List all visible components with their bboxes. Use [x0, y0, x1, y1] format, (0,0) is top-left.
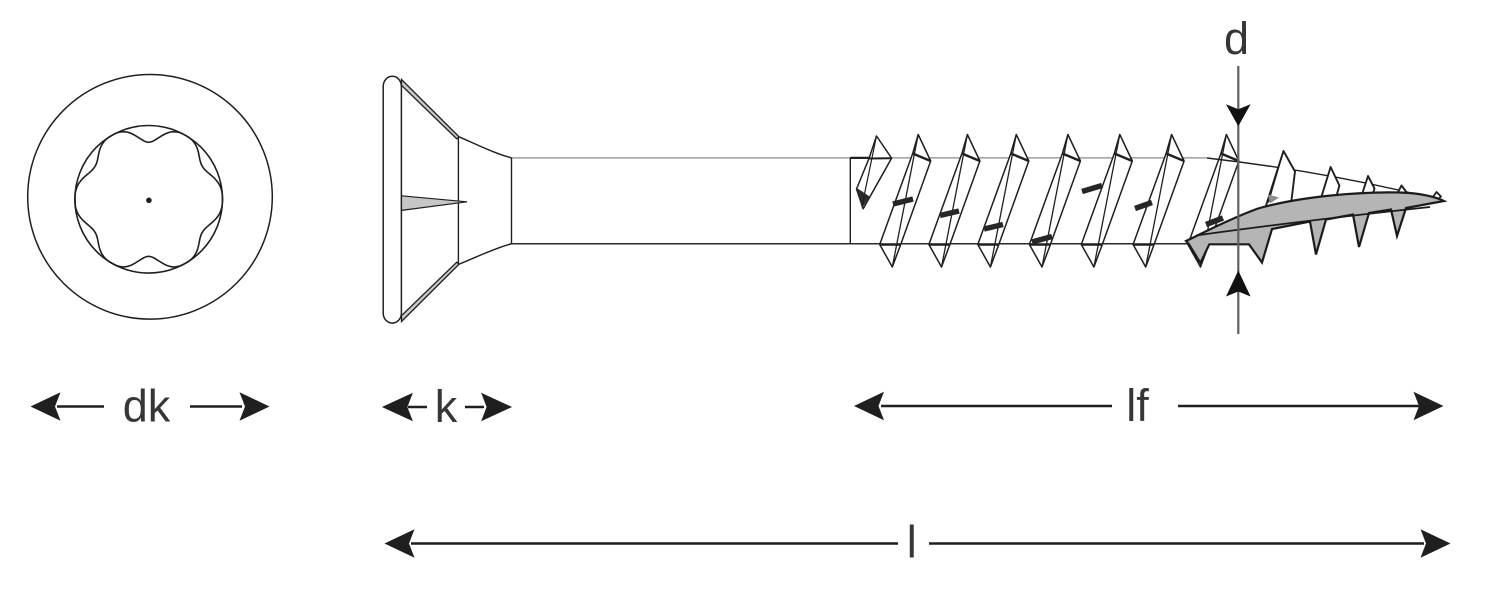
countersunk head: top face edge (rounded bar)	[383, 76, 401, 323]
svg-text:d: d	[1224, 13, 1249, 64]
flute inner edge line	[1196, 207, 1430, 236]
shank top line	[512, 157, 1208, 159]
thread back-edge marks	[893, 186, 1152, 243]
thread flight 3	[929, 135, 980, 268]
thread flight 8	[1188, 135, 1239, 268]
thread flight 7	[1133, 135, 1184, 268]
center point	[146, 198, 152, 204]
dimension dk	[31, 381, 270, 432]
d arrow down	[1226, 104, 1251, 126]
tip crest envelope line	[1207, 158, 1442, 201]
thread run-out flight	[850, 136, 891, 209]
tip cutting flute (gray)	[1186, 192, 1444, 263]
dimension lf	[854, 380, 1444, 431]
torx recess outline	[75, 132, 223, 267]
shank bottom line	[512, 243, 1189, 245]
tip mini flight b3	[1320, 167, 1340, 205]
d arrow up	[1226, 271, 1251, 297]
dimension line d (vertical)	[1237, 66, 1239, 334]
tip mini flight b6	[1432, 192, 1442, 200]
thread start vertical line	[849, 158, 851, 244]
svg-text:l: l	[907, 517, 917, 568]
thread flight 2	[880, 135, 931, 268]
head cone edge vertical	[457, 138, 459, 265]
cone to shank bottom curve	[459, 244, 512, 264]
screw head top view: outer circle	[28, 75, 273, 320]
svg-text:dk: dk	[123, 381, 171, 432]
head chamfer band top	[402, 80, 460, 139]
dimension k	[382, 381, 512, 432]
svg-text:lf: lf	[1126, 380, 1149, 431]
shank start vertical edge	[511, 158, 513, 244]
svg-text:k: k	[435, 381, 458, 432]
thread flight 6	[1081, 135, 1132, 268]
under-head rib wedge	[402, 196, 468, 211]
tip mini flight b5	[1396, 186, 1407, 199]
dimension l	[385, 517, 1451, 568]
cone to shank top curve	[459, 137, 512, 158]
screw head top view: inner circle (recess rim)	[75, 126, 223, 274]
head chamfer band bottom	[402, 262, 460, 321]
thread back-edge mark f8	[1206, 218, 1223, 225]
tip mini flight b2	[1264, 151, 1295, 212]
thread flight 4	[978, 135, 1029, 268]
tip mini flight b4	[1361, 176, 1375, 200]
thread flight 5	[1029, 135, 1080, 268]
